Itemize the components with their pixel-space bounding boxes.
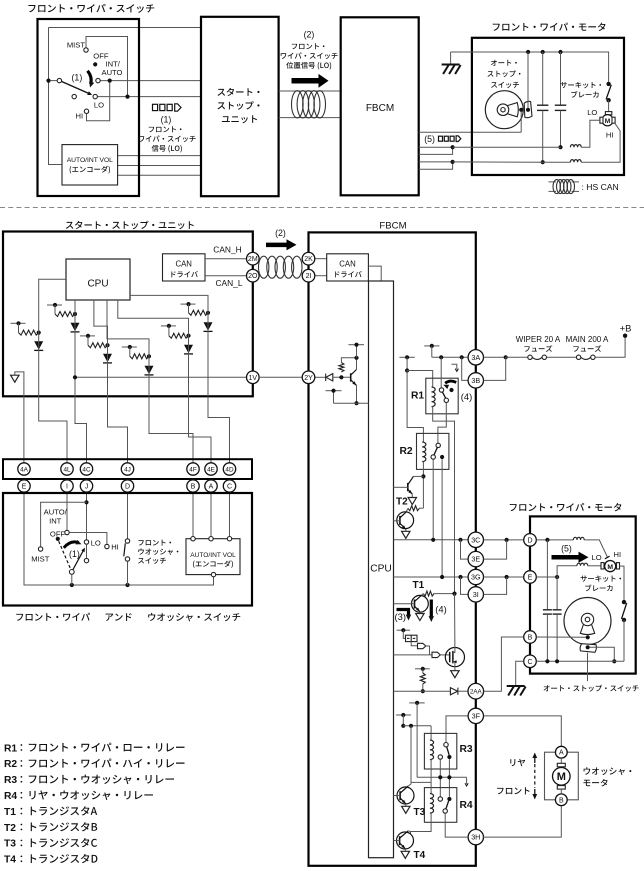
T3 base bar (399, 791, 401, 800)
wire R3coil-T3 (411, 781, 431, 783)
wire R1 coil bot (433, 407, 455, 594)
legend T3 sep (21, 840, 23, 847)
label breaker2 b (585, 585, 612, 592)
wire T3 base (394, 795, 401, 797)
junction cap1 (541, 160, 545, 164)
label CAN driver fbcm (335, 271, 362, 277)
stub emitter (326, 390, 342, 392)
cap1 lead bot (542, 110, 544, 162)
T2b emitter diag (400, 524, 406, 530)
stub dot cell2 (53, 303, 57, 307)
motor right brush (612, 117, 615, 123)
black arrow (2) bottom (266, 239, 297, 250)
wire R3 coil bot (430, 760, 432, 783)
svg-text:3H: 3H (471, 833, 480, 842)
wire rail B down (431, 346, 433, 357)
connector 3B (468, 373, 483, 388)
connector 2AA (468, 683, 484, 699)
connector pin B (187, 480, 199, 492)
wire HI up (581, 124, 620, 163)
resistor 2AA (420, 673, 425, 684)
wire T1 res to node (434, 593, 455, 595)
encoder box bottom (186, 539, 240, 575)
connector 3I (468, 587, 483, 602)
CPU box fbcm (369, 281, 394, 858)
junction Q collector (354, 356, 358, 360)
svg-text:2M: 2M (248, 256, 258, 263)
svg-text:(2): (2) (275, 228, 286, 238)
junction INT/AUTO (108, 79, 112, 83)
Q emitter (351, 380, 357, 385)
junction cap2 (558, 145, 562, 149)
connector pin J (80, 480, 92, 492)
stub cell1 (11, 322, 26, 324)
stub R3 a (409, 702, 425, 704)
wire INT/AUTO to unit (100, 80, 201, 82)
svg-text:FBCM: FBCM (379, 221, 406, 232)
wire 1V-2Y (259, 376, 302, 378)
svg-text:T4: T4 (4, 855, 16, 866)
label unit line3 (222, 115, 257, 123)
svg-text:CAN_L: CAN_L (216, 278, 243, 288)
dir arrow up head (532, 753, 537, 759)
washer terminal A (555, 746, 567, 758)
stub cell2 (47, 304, 62, 306)
wire mosfet stub down (403, 630, 405, 638)
wire 2AA (394, 690, 451, 692)
T3 emitter arrow (402, 800, 406, 804)
title start-stop unit (66, 221, 194, 230)
wire FBCM LO join (419, 147, 453, 154)
cap2 lead top (560, 52, 562, 105)
leader autostop b (587, 653, 589, 681)
svg-text:: HS CAN: : HS CAN (582, 182, 619, 192)
start-stop unit box top (201, 17, 279, 196)
label fuse2 (573, 345, 601, 352)
wire FBCM LO main (419, 146, 453, 148)
autostop follower (524, 101, 532, 117)
svg-text:WIPER 20 A: WIPER 20 A (516, 335, 561, 344)
resistor cell3 (88, 343, 108, 348)
wire T2b base (394, 520, 400, 522)
wire switch top rail (49, 27, 202, 29)
stub rail A (399, 356, 414, 358)
wire ground stub (450, 52, 452, 64)
T2 collector diag (408, 476, 413, 484)
legend R1 sep (21, 744, 23, 751)
motor top brush (605, 112, 611, 115)
capb2 lead2 (556, 614, 558, 661)
svg-text:4J: 4J (124, 466, 131, 473)
signal squares (1) (153, 104, 173, 110)
wire 3E out jumper (484, 540, 507, 559)
T1 circle (412, 595, 429, 612)
svg-text:3I: 3I (473, 590, 479, 599)
stub dot rail A (405, 355, 409, 359)
washer brush top (557, 763, 565, 767)
wire 2Y pullup up (341, 358, 356, 363)
wire 2AA res bot (422, 684, 424, 691)
autostop contact L (519, 108, 523, 112)
resistor T1 (423, 591, 434, 596)
autostop b hole (585, 617, 590, 622)
junction rail c (558, 50, 562, 54)
title front wiper motor top (493, 23, 606, 31)
autostop cam hole (501, 108, 505, 112)
washer terminal B (555, 794, 567, 806)
T4 base bar (399, 836, 401, 845)
wire motor top rail (451, 52, 609, 82)
capb1 plate a (543, 609, 552, 611)
stub cell6 (161, 325, 176, 327)
blade dashed OFF-pivot (59, 541, 71, 569)
wire T1 base (394, 603, 415, 605)
autostop b wedge (580, 624, 594, 635)
connector pin D (121, 480, 133, 492)
legend T1 sep (21, 808, 23, 815)
wire R3 contactL down (439, 759, 441, 797)
front wiper motor box top (472, 38, 624, 175)
breaker dot a (606, 82, 610, 86)
connector 2O (247, 269, 260, 282)
svg-text:A: A (559, 750, 564, 757)
connector pin E (18, 480, 30, 492)
wire 2AA-B (484, 637, 524, 691)
wire LO to brush (588, 565, 601, 567)
svg-text:A: A (209, 484, 214, 491)
connector 4C (80, 463, 92, 475)
svg-text:AUTO/INT VOL: AUTO/INT VOL (67, 157, 113, 164)
wire J column (86, 492, 88, 540)
wire jumper down (411, 642, 417, 646)
FBCM box top (341, 17, 419, 195)
T2 base bar (407, 483, 409, 491)
junction 3C a (431, 538, 435, 542)
stub dot Q rail (354, 343, 358, 347)
legend T4 sep (21, 855, 23, 862)
junction 3C b (458, 538, 462, 542)
label encoder b (193, 560, 233, 568)
wire AUTOINT-HI (69, 533, 107, 545)
wire T1 coll to res (422, 594, 424, 596)
legend wire a2 (549, 190, 557, 192)
cap1 plate b (537, 109, 548, 111)
junction 3B jumper (504, 355, 508, 359)
R4 blade (446, 801, 449, 809)
label breaker1 top (561, 82, 602, 88)
dir arrow dn shaft (534, 789, 536, 796)
wire 3H washer (483, 806, 562, 837)
terminal LO b2 (84, 540, 88, 544)
svg-text:D: D (125, 484, 130, 491)
connector 3G (468, 569, 483, 584)
junction rail b (541, 50, 545, 54)
wire LO to unit (97, 96, 201, 98)
connector 3F (468, 708, 483, 723)
label washer sw1 (138, 540, 171, 546)
svg-text:T4: T4 (414, 850, 426, 861)
svg-text:(1): (1) (69, 549, 80, 559)
wire col6 jog 4E (189, 396, 212, 463)
wire 3F (446, 716, 468, 743)
wire R1 contact down (438, 403, 446, 444)
svg-text:J: J (85, 484, 89, 491)
svg-text:M: M (557, 771, 566, 783)
junction 1V (73, 375, 77, 379)
svg-text:T3: T3 (414, 807, 426, 818)
svg-text:(1): (1) (72, 72, 83, 82)
R2 blade (434, 447, 437, 455)
legend T2 sep (21, 824, 23, 831)
capb2 plate b (553, 613, 562, 615)
wire emitter to CPU (334, 402, 369, 404)
(3) arrowhead (406, 615, 411, 621)
T2 triangle (408, 498, 416, 505)
svg-text:4A: 4A (20, 466, 29, 473)
stub dot cell3 (86, 334, 90, 338)
svg-text:R3: R3 (4, 775, 17, 786)
wire fuse1-fuse2 (547, 356, 577, 358)
terminal AUTO/INT (65, 530, 69, 534)
(4) arrow (430, 600, 433, 618)
resistor cell2 (55, 312, 75, 317)
svg-text:INT: INT (49, 517, 62, 526)
wire 2AA res top (422, 669, 424, 673)
cap2 plate a (555, 104, 566, 106)
svg-text:R2: R2 (4, 759, 17, 770)
svg-text:HI: HI (606, 131, 614, 140)
connector 2K (302, 252, 315, 265)
wire HI mid (543, 161, 571, 163)
wire R3 contactR down (448, 759, 450, 797)
wire col2 jog 4L (39, 396, 67, 463)
inductor LO (570, 145, 581, 148)
wire T4 coll up (408, 830, 410, 833)
junction 2Y node (339, 375, 343, 379)
junction pivot gnd (70, 583, 74, 587)
svg-text:E: E (528, 575, 533, 582)
junction 3A 3B (460, 355, 464, 359)
svg-text:3B: 3B (471, 376, 480, 385)
wire T4 emitter down (404, 849, 406, 852)
capb1 lead (546, 540, 548, 610)
arc arrowhead (89, 81, 94, 87)
svg-text:(3): (3) (395, 611, 406, 622)
wire 3G-E (484, 576, 524, 578)
autostop b hub (581, 613, 593, 625)
svg-text:FBCM: FBCM (366, 103, 394, 114)
R3 contact R (447, 755, 451, 759)
wire to fuse1 (506, 356, 528, 358)
wire common stub (51, 80, 58, 82)
label washer sw3 (138, 557, 166, 563)
diode cell6 (184, 345, 193, 354)
CAN driver box unit (163, 254, 206, 281)
terminal MIST (84, 48, 88, 52)
autostop b circle (564, 598, 611, 645)
wire rail A long (407, 371, 423, 443)
breaker b dot b (622, 618, 626, 622)
autostop cam circle (485, 91, 523, 129)
label unit line2 (217, 101, 259, 110)
wire D diag HI (584, 540, 607, 557)
junction cell4 (147, 354, 151, 358)
wire 3F washer (484, 716, 562, 746)
Q emitter arrow (352, 381, 356, 385)
T2 emitter arrow (408, 490, 412, 494)
connector 4F (187, 463, 199, 475)
svg-text:CPU: CPU (370, 564, 392, 575)
svg-text:D: D (527, 537, 532, 544)
R2 contact L (431, 455, 435, 459)
svg-text:B: B (191, 484, 196, 491)
svg-text:LO: LO (592, 553, 602, 562)
T4 triangle (401, 851, 409, 858)
legend wire b1 (572, 181, 580, 183)
wire CANdrv to CPU (368, 266, 381, 281)
terminal MIST b (38, 547, 42, 551)
terminal washer top (125, 539, 129, 543)
junction R2 coil T2 (421, 474, 425, 478)
junction C col (612, 659, 616, 663)
legend R3 sep (21, 776, 23, 783)
wire E up (557, 566, 577, 577)
breaker b dot a (622, 600, 626, 604)
connector 4L (61, 463, 73, 475)
legend twisted (553, 180, 575, 194)
breaker dot b (606, 98, 610, 102)
wire washer down (127, 561, 129, 585)
ground top (442, 65, 461, 75)
svg-text:LO: LO (94, 101, 104, 110)
stub dot cell4 (128, 345, 132, 349)
stub dot emitter (331, 389, 335, 393)
stub dot cell5 (186, 302, 190, 306)
wire R3 coil feed (403, 725, 431, 727)
wire FBCM HI join (419, 162, 453, 169)
connector B2 (524, 631, 537, 644)
wire col5 (107, 300, 149, 396)
title wiper washer switch p1 (16, 613, 90, 621)
motor M bottom (605, 561, 616, 572)
svg-text:HI: HI (76, 111, 84, 120)
R3 contact L (438, 755, 442, 759)
svg-text:LO: LO (91, 538, 101, 547)
start-stop unit box (3, 232, 253, 397)
R4 contact R (447, 797, 451, 801)
legend R3 text (29, 775, 174, 785)
R2 contact R (440, 455, 444, 459)
wire R1 contact common (440, 357, 442, 388)
ground bottom (507, 686, 526, 696)
connector 2Y (302, 371, 315, 384)
terminal lower J (84, 558, 88, 562)
blade pivot-LO (73, 549, 84, 569)
T1 emitter arrow (416, 608, 420, 612)
arc arrow (1) (88, 71, 92, 84)
gate buffer 2 (432, 652, 440, 657)
junction T1 R1coil (452, 592, 456, 596)
connector 1V (247, 371, 260, 384)
svg-text:R3: R3 (460, 744, 473, 755)
svg-text:R4: R4 (4, 791, 17, 802)
mosfet source (453, 662, 455, 667)
wire R3R4 mid (417, 776, 467, 778)
svg-text:2AA: 2AA (470, 688, 483, 695)
contact OFF pos (93, 62, 97, 66)
svg-text:+B: +B (620, 323, 632, 334)
wire col3 jog 4C (75, 396, 87, 463)
switch blade (61, 81, 90, 94)
wire rail A down (406, 357, 408, 370)
diode cell5 (204, 322, 213, 331)
label wiper switch 1 (139, 135, 196, 142)
cap2 plate b (555, 109, 566, 111)
T4 emitter diag (400, 843, 406, 849)
diode cell3 (103, 354, 112, 363)
svg-text:4E: 4E (207, 466, 215, 473)
junction capL top (545, 538, 549, 542)
wire mosfet cpu (394, 654, 433, 656)
stub cell5 (181, 303, 196, 305)
wire E in (536, 576, 557, 578)
capb2 plate a (553, 609, 562, 611)
junction emitter wire (354, 401, 358, 405)
(4) hook head (455, 369, 458, 372)
washer motor box (545, 752, 579, 800)
junction J (84, 500, 88, 504)
label autostop3 (491, 82, 519, 88)
enc term A (209, 537, 213, 541)
terminal common (57, 78, 61, 82)
svg-text:1V: 1V (249, 375, 258, 382)
junction 2AA (421, 689, 425, 693)
wire C ground (516, 661, 524, 685)
svg-text:2I: 2I (306, 273, 312, 280)
washer motor M (553, 768, 571, 786)
legend T3 text (31, 838, 97, 847)
wire T2 base (394, 486, 408, 488)
T2b triangle (402, 531, 410, 538)
junction T3 rail (409, 724, 413, 728)
wire 2AA out (458, 690, 468, 692)
wire 3C-D (484, 539, 524, 541)
title front wiper motor b (510, 503, 622, 511)
inductor E (577, 563, 588, 566)
stub cell4 (122, 346, 137, 348)
svg-text:(4): (4) (461, 391, 472, 402)
junction cell2 (73, 312, 77, 316)
wire cell3 L (87, 336, 89, 345)
wire cell2 L (54, 305, 56, 314)
junction cell3 (105, 343, 109, 347)
terminal HI (84, 109, 88, 113)
autostop b follower (580, 644, 596, 653)
wire A column (210, 492, 212, 536)
R3 blade (447, 747, 449, 755)
svg-text:LO: LO (587, 108, 597, 117)
legend T2 text (31, 822, 98, 831)
resistor cell1 (19, 330, 39, 335)
wire T2 emitter down (411, 494, 413, 497)
terminal HI b (105, 544, 109, 548)
diode cell2 (71, 323, 80, 332)
mosfet gate bar (449, 652, 451, 662)
signal ground triangle (11, 375, 19, 382)
label CAN driver unit (171, 271, 198, 277)
autostop b contact dn (586, 645, 590, 649)
front wiper switch box (38, 19, 140, 196)
